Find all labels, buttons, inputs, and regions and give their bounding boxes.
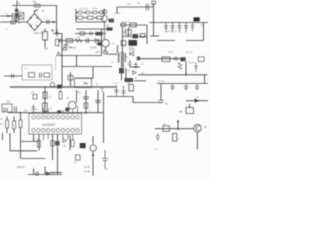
inductor L2	[29, 73, 35, 78]
capacitor C17	[134, 62, 138, 69]
resistor R23	[60, 90, 62, 92]
resistor R10 zigzag	[75, 39, 82, 42]
pin 11	[32, 129, 35, 132]
capacitor C14	[40, 73, 42, 78]
svg-text:c3 r4: c3 r4	[92, 8, 98, 11]
wire aux drop	[116, 7, 118, 13]
resistor R5	[77, 16, 83, 19]
resistor R2	[86, 11, 90, 14]
wire fb row2	[122, 36, 147, 38]
resistor R11	[55, 39, 58, 46]
pin 6	[56, 116, 59, 119]
diode D12	[130, 52, 134, 56]
resistor R18	[6, 117, 8, 121]
input filter box	[22, 65, 52, 80]
wire dot link	[177, 121, 179, 128]
svg-text:17.B: 17.B	[84, 165, 90, 169]
wire T2 top	[75, 77, 94, 79]
svg-text:KA7500C: KA7500C	[42, 123, 56, 127]
wire main vertical	[56, 22, 58, 34]
wire Q5 em	[92, 151, 94, 176]
arrow	[46, 171, 51, 176]
connector J1 dark	[194, 17, 200, 21]
svg-text:B1: B1	[33, 0, 37, 4]
capacitor tick	[90, 32, 92, 35]
resistor R26	[129, 85, 134, 92]
wire 5V rail	[138, 74, 208, 76]
svg-text:tr: tr	[25, 67, 27, 71]
node dark3	[57, 110, 61, 114]
node small circle	[59, 39, 62, 42]
node v2	[44, 112, 46, 114]
wire x20	[20, 134, 22, 159]
svg-text:12V: 12V	[168, 50, 173, 54]
capacitor C11	[171, 23, 175, 33]
pin 19	[71, 129, 74, 132]
capacitor C27	[114, 85, 119, 97]
wire PS-ON arrow	[186, 100, 208, 102]
svg-text:r1 r2 c3: r1 r2 c3	[79, 6, 88, 10]
wire sense step	[107, 97, 161, 103]
diode D9	[109, 19, 115, 23]
wire Q6 emitter	[196, 132, 198, 150]
arrowhead	[195, 99, 201, 103]
motor comp	[50, 83, 54, 87]
wire fb vert mid	[128, 27, 130, 37]
wire right col	[203, 23, 205, 41]
node j	[185, 74, 187, 76]
resistor R31	[51, 141, 54, 147]
svg-text:+3Ov: +3Ov	[114, 11, 121, 15]
wire to T1	[106, 53, 118, 55]
wire x98	[97, 90, 99, 113]
capacitor C10	[164, 23, 168, 33]
wire left corner	[2, 133, 4, 140]
wire r27 stub	[189, 104, 191, 108]
resistor R13	[140, 34, 145, 38]
pin 8	[66, 116, 69, 119]
capacitor C33 ticks	[32, 107, 35, 109]
wire drive drop	[101, 29, 103, 56]
capacitor CX2	[11, 20, 15, 23]
node dark	[98, 42, 101, 46]
wire drop2	[92, 67, 94, 79]
wire row1	[76, 11, 99, 13]
diode D14 block	[2, 104, 12, 112]
resistor R9	[66, 39, 73, 43]
wire start vertical	[75, 9, 77, 22]
capacitor C15	[12, 74, 14, 78]
svg-text:C945: C945	[90, 46, 97, 50]
warning triangle	[63, 46, 67, 50]
resistor R30	[37, 141, 40, 148]
wire x161	[160, 84, 162, 101]
node v3	[85, 112, 87, 114]
node j5	[92, 154, 94, 156]
diode D8	[95, 39, 99, 43]
wire T1 top feed	[118, 27, 123, 53]
capacitor C23	[33, 95, 37, 100]
resistor R25	[76, 155, 81, 160]
diode D11	[104, 50, 108, 54]
pin 4	[47, 116, 50, 119]
pin 18	[66, 129, 69, 132]
pin 17	[61, 129, 64, 132]
svg-text:+B: +B	[44, 47, 48, 51]
pin 7	[61, 116, 64, 119]
diode D6 dark	[107, 27, 113, 30]
resistor R27	[186, 108, 194, 114]
wire pin stubs below	[43, 134, 72, 140]
wire gnd row2	[28, 174, 62, 176]
pin 15	[51, 129, 54, 132]
node junction	[52, 21, 54, 23]
warning triangle 2	[57, 52, 61, 56]
node junction2	[137, 57, 140, 61]
svg-text:×B: ×B	[179, 109, 183, 113]
wire fb row	[120, 24, 147, 26]
resistor R16	[44, 73, 50, 77]
left edge marks	[0, 119, 3, 124]
svg-text:1 2 3 4: 1 2 3 4	[31, 110, 39, 112]
wire Q2 stem	[103, 9, 105, 16]
wire mid gnd	[50, 172, 62, 174]
wire Q3 base	[96, 43, 102, 45]
capacitor C31	[156, 133, 160, 141]
svg-text:1u 1u 1u: 1u 1u 1u	[167, 30, 177, 33]
wire q4	[76, 90, 78, 103]
pin 1	[32, 116, 35, 119]
wire stub top-left	[16, 1, 18, 6]
wire top AC rail	[12, 6, 57, 23]
wire bridge top out	[35, 11, 38, 14]
wire L line	[0, 15, 21, 17]
wire T1 bottom	[121, 73, 123, 80]
node cluster dark	[125, 78, 134, 82]
wire aux top rail	[117, 6, 154, 8]
wire Vcc rail	[8, 112, 104, 114]
pin 5	[51, 116, 54, 119]
resistor R17 zigzag	[178, 63, 181, 70]
wire drop right	[185, 61, 187, 75]
resistor R3	[93, 11, 97, 14]
resistor R7	[97, 16, 103, 19]
svg-text:1u: 1u	[36, 7, 40, 11]
wire N line	[0, 21, 27, 23]
transistor Q6	[194, 124, 202, 132]
wire row b	[10, 150, 37, 152]
wire low	[134, 80, 146, 82]
pin 2	[37, 116, 40, 119]
node plus	[51, 29, 54, 32]
node dark4	[65, 108, 69, 112]
wire into box	[4, 75, 22, 77]
resistor R20	[20, 114, 22, 120]
wire Q2-Q3 link	[103, 22, 105, 40]
transformer T2 standby	[75, 78, 92, 87]
dashed net	[55, 57, 57, 70]
resistor R33	[102, 10, 106, 13]
inductor L3	[162, 57, 170, 62]
pin 14	[47, 129, 50, 132]
resistor R29	[173, 134, 177, 142]
wire Q3 down	[105, 47, 107, 52]
component top-right stub	[152, 1, 156, 4]
capacitor C34	[194, 63, 198, 73]
wire pin stubs above	[34, 105, 78, 114]
wire snubber line	[76, 28, 112, 30]
wire x45 chain	[44, 87, 46, 113]
resistor R22	[43, 103, 48, 112]
fuse holder stack	[16, 6, 18, 23]
wire DC link	[53, 34, 62, 88]
wire stubs	[34, 167, 46, 175]
capacitor C19	[171, 84, 175, 91]
fuse F1	[35, 4, 41, 7]
capacitor C16	[128, 60, 132, 68]
pin 16	[56, 129, 59, 132]
wire B+ feed	[61, 55, 102, 57]
resistor R12	[121, 23, 125, 26]
pin 13	[42, 129, 45, 132]
resistor R21	[43, 92, 47, 99]
node dot	[177, 120, 179, 122]
svg-text:r10: r10	[24, 108, 28, 112]
transformer T1 core	[121, 52, 124, 68]
wire fb vert right	[146, 25, 148, 44]
resistor R4	[100, 11, 104, 14]
wire mid rail	[62, 66, 112, 68]
wire short	[150, 35, 159, 37]
IC U2 TL431 dark	[129, 40, 138, 46]
svg-text:B+: B+	[7, 100, 11, 104]
capacitor C29	[101, 89, 104, 92]
svg-text:c7 1u: c7 1u	[158, 79, 165, 83]
svg-text:r r d: r r d	[34, 138, 39, 141]
winding lower dark	[119, 68, 124, 73]
resistor R32	[71, 140, 74, 147]
resistor R24	[84, 103, 88, 108]
wire drop	[76, 56, 78, 67]
wire right edge drop	[204, 75, 206, 84]
diode D10 cluster	[133, 34, 139, 38]
resistor R19	[13, 117, 15, 122]
node blob	[7, 15, 10, 17]
svg-text:7g: 7g	[165, 102, 169, 106]
node ring	[36, 172, 39, 175]
tick marks	[13, 22, 19, 24]
wire below pins	[34, 134, 71, 175]
pin 9	[71, 116, 74, 119]
diode D13	[133, 71, 137, 75]
wire sec cluster	[125, 68, 127, 82]
node dark end	[57, 85, 62, 89]
transistor Q5	[90, 145, 96, 151]
capacitor C22	[15, 107, 17, 112]
node v1	[20, 112, 22, 114]
wire right vertical main	[153, 3, 155, 36]
svg-text:2k 431: 2k 431	[122, 31, 130, 34]
capacitor C30 plates	[158, 100, 163, 102]
pin 12	[37, 129, 40, 132]
svg-text:pc 1x c: pc 1x c	[122, 20, 130, 23]
pin 10	[76, 116, 79, 119]
pin 20	[76, 129, 79, 132]
capacitor C26	[102, 150, 107, 169]
wire base line	[75, 33, 106, 35]
capacitor C24	[83, 97, 89, 99]
svg-text:jw: jw	[41, 10, 45, 13]
capacitor C21	[195, 84, 199, 91]
capacitor C5 electrolytic	[43, 32, 48, 41]
capacitor series ticks	[47, 20, 49, 24]
wire base row	[155, 128, 194, 130]
resistor R28	[163, 126, 169, 132]
resistor R15	[68, 75, 73, 80]
svg-text:c1815 R 1k: c1815 R 1k	[62, 46, 77, 50]
capacitor C7	[55, 29, 58, 37]
svg-text:17.B: 17.B	[84, 170, 90, 174]
wire row c	[21, 158, 46, 160]
node dot2	[177, 128, 179, 130]
capacitor C18 ticks	[175, 57, 177, 61]
wire drop3	[70, 72, 72, 87]
transformer T1 winding right	[125, 54, 126, 62]
transistor Q2	[101, 15, 107, 21]
diode D15	[63, 139, 67, 143]
wire +12 rail	[149, 22, 208, 24]
wire sec mid	[130, 66, 140, 68]
IC U1 KA7500 body	[29, 114, 82, 135]
wire Q5 top	[92, 136, 94, 144]
node blob2	[55, 141, 60, 145]
svg-text:tl431: tl431	[129, 47, 135, 50]
wire row a	[21, 141, 39, 143]
svg-text:c 1x: c 1x	[126, 2, 132, 6]
optocoupler U3	[130, 23, 136, 27]
bridge rectifier BR1	[27, 14, 42, 31]
wire 12V rail thick	[137, 58, 186, 60]
X-capacitor	[19, 13, 24, 20]
diode D7 cluster	[96, 32, 103, 36]
wire drive row	[58, 40, 101, 42]
wire gnd row	[157, 40, 204, 42]
capacitor C20	[184, 84, 188, 91]
capacitor C8 on rail	[146, 4, 148, 11]
wire thick bus	[10, 86, 116, 88]
pin 3	[42, 116, 45, 119]
node dark2	[181, 57, 186, 61]
resistor R14	[121, 41, 126, 46]
resistor R1	[78, 11, 82, 14]
wire x86	[85, 90, 87, 113]
wire gnd rail2	[157, 83, 208, 85]
capacitor C6	[87, 38, 89, 43]
wire row2	[76, 17, 96, 19]
diode D17	[198, 57, 204, 62]
capacitor C9	[125, 30, 131, 35]
resistor R6	[87, 16, 93, 19]
transformer T1 winding	[118, 53, 120, 63]
capacitor C12	[178, 23, 182, 33]
wire x10	[9, 133, 11, 151]
diode D16 dark	[80, 143, 86, 148]
resistor R8	[80, 32, 84, 35]
capacitor C25	[95, 101, 101, 103]
svg-text:+B +5V: +B +5V	[95, 50, 104, 54]
wire bridge right out	[42, 21, 57, 23]
capacitor C13	[184, 23, 188, 33]
svg-text:7g 1x: 7g 1x	[188, 61, 195, 65]
wire start rail	[76, 21, 106, 23]
capacitor C32	[191, 23, 195, 32]
svg-text:c c n: c c n	[114, 82, 120, 85]
capacitor C28	[121, 86, 126, 97]
transistor Q3	[102, 40, 109, 47]
wire Q5 col	[103, 92, 105, 143]
svg-text:B.: B.	[205, 125, 208, 129]
svg-text:r22: r22	[77, 91, 81, 94]
capacitor CX1	[12, 14, 17, 19]
transistor Q4	[68, 101, 76, 109]
svg-text:.1x 1u: .1x 1u	[185, 50, 193, 54]
svg-text:[R(x)]: [R(x)]	[17, 165, 24, 169]
